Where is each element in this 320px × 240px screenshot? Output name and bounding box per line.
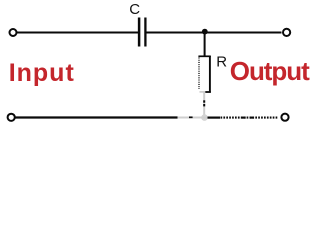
- wire: junction down to resistor: [204, 33, 206, 57]
- wire: capacitor to top-right terminal: [147, 32, 282, 34]
- wire: longer dash 1 in dotted segment: [242, 117, 246, 119]
- node: junction dot on bottom rail (grey, selected): [201, 114, 208, 121]
- output terminal (top-right open circle): [283, 29, 290, 36]
- wire: bottom rail black solid after junction: [208, 116, 221, 118]
- svg-text:Input: Input: [9, 59, 75, 87]
- resistor R box: left edge (dotted): [198, 58, 200, 90]
- resistor R box: top edge: [198, 55, 210, 57]
- capacitor C (right plate): [144, 18, 146, 47]
- resistor R box: right edge: [209, 56, 211, 93]
- wire: selection dash 1 on vertical wire: [203, 100, 205, 102]
- node: junction dot on top rail: [202, 29, 208, 35]
- wire: top-left terminal to capacitor: [17, 32, 138, 34]
- resistor R box: bottom edge black part: [205, 91, 211, 93]
- wire: longer dash 2 in dotted segment: [250, 117, 254, 119]
- svg-text:R: R: [216, 53, 227, 70]
- output terminal (bottom-right open circle): [281, 114, 288, 121]
- wire: bottom rail left black segment: [16, 116, 178, 118]
- input terminal (top-left open circle): [10, 29, 17, 36]
- wire: resistor to bottom rail (selected, grey): [203, 93, 205, 118]
- resistor R box: bottom edge grey part: [200, 91, 206, 93]
- wire: selection dash on bottom rail: [189, 116, 193, 118]
- wire: bottom rail grey selected segment: [178, 117, 208, 119]
- svg-text:Output: Output: [230, 56, 310, 86]
- wire: selection dash 2 on vertical wire: [203, 104, 205, 106]
- input terminal (bottom-left open circle): [8, 114, 15, 121]
- wire: bottom rail dotted segment: [221, 117, 278, 119]
- capacitor C (left plate): [138, 18, 141, 47]
- svg-text:C: C: [129, 1, 140, 18]
